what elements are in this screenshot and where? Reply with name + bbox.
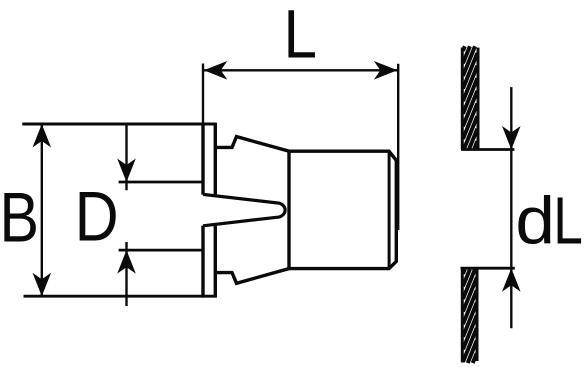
svg-text:L: L xyxy=(553,184,583,258)
slot tongue outline xyxy=(203,194,285,225)
dimension D up arrow xyxy=(117,250,136,274)
rivet nut flange bottom edge / B bottom extension line xyxy=(24,295,216,298)
L dimension left extension line xyxy=(202,64,204,125)
bottom plate hatching xyxy=(463,269,477,363)
dimension D lower line xyxy=(125,242,127,306)
dimension dL down arrow xyxy=(502,126,521,150)
flange right edge, interrupted by slot xyxy=(214,123,217,298)
svg-text:d: d xyxy=(515,184,555,258)
top plate right edge xyxy=(477,48,480,150)
dimension L right arrow xyxy=(374,61,398,80)
dimension B bottom arrow xyxy=(33,273,52,297)
dimension dL line xyxy=(510,87,512,328)
bore bottom line (hole edge, D extension) xyxy=(119,249,203,252)
dimension D down arrow xyxy=(117,159,136,183)
body outline: neck, taper, cylinder, chamfered end xyxy=(215,137,396,284)
top plate left edge xyxy=(461,48,464,150)
dimension B line xyxy=(41,124,43,296)
bottom plate right edge xyxy=(476,268,479,361)
bore top line (hole edge, D extension) xyxy=(119,181,203,184)
svg-text:B: B xyxy=(0,177,39,256)
rivet nut flange top edge / B top extension line xyxy=(22,123,215,126)
svg-text:L: L xyxy=(284,0,318,73)
bottom plate left edge xyxy=(461,268,464,362)
dimension L left arrow xyxy=(204,61,228,80)
top plate bottom edge / dL top extension xyxy=(461,148,514,151)
flange left edge (face), interrupted by slot xyxy=(201,123,204,298)
body left edge line (knurl/cylinder junction) xyxy=(287,151,290,268)
dimension dL up arrow xyxy=(502,268,521,292)
svg-text:D: D xyxy=(75,177,119,256)
dimension B top arrow xyxy=(33,124,52,148)
dimension L line xyxy=(203,69,398,71)
top plate hatching xyxy=(463,46,477,149)
chamfer edge line at threaded end xyxy=(388,151,391,268)
L right extension line xyxy=(397,64,399,230)
bottom plate top edge / dL bottom extension xyxy=(461,267,515,270)
dimension D upper line xyxy=(125,124,127,190)
